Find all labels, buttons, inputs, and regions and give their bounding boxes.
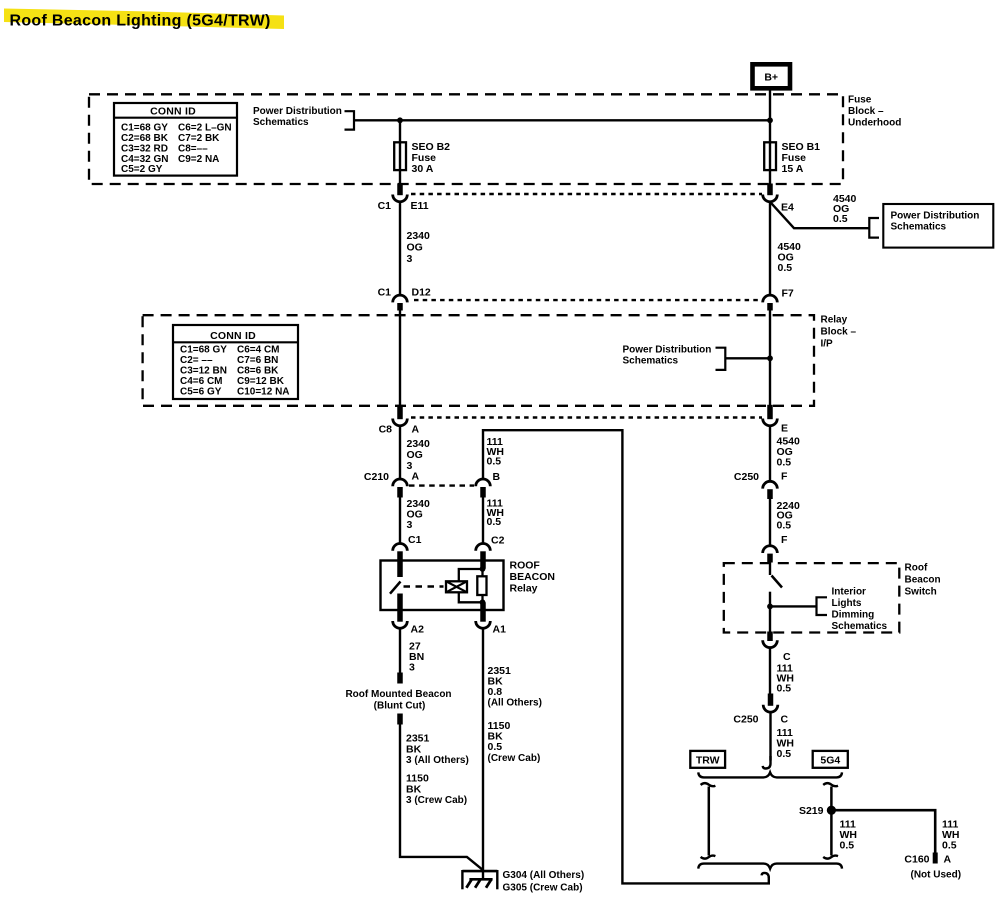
svg-text:0.5: 0.5 [840, 840, 855, 852]
svg-text:30 A: 30 A [412, 163, 434, 175]
wire: resistor branch [481, 569, 483, 602]
wire 4540 OG 0.5: E4 to F7 [769, 202, 771, 295]
svg-text:C4=32 GN: C4=32 GN [121, 154, 169, 165]
svg-text:CONN ID: CONN ID [210, 330, 256, 342]
wire 4540 OG 0.5: E to C250 F [769, 426, 771, 482]
svg-text:F: F [781, 471, 788, 483]
relay resistor [477, 576, 486, 595]
connector C160 pin A (not used) [933, 853, 938, 864]
relay switch blade [390, 582, 401, 594]
connector link line C210 A-B [409, 484, 474, 486]
svg-text:BK: BK [406, 783, 422, 795]
svg-text:BEACON: BEACON [510, 571, 556, 583]
svg-text:BK: BK [406, 743, 422, 755]
node: junction in relay block [767, 355, 773, 361]
power distribution schematics reference box (right) [883, 204, 993, 248]
wire S219 to C160 [831, 810, 935, 852]
relay actuator dashed link [404, 585, 444, 587]
svg-text:A: A [412, 471, 420, 483]
svg-text:D12: D12 [412, 287, 431, 299]
wire: SEO B1 to connector E4 [769, 170, 771, 184]
svg-text:3 (All Others): 3 (All Others) [406, 755, 469, 766]
wire to relay block bus [725, 357, 770, 359]
svg-text:(Crew Cab): (Crew Cab) [488, 753, 541, 764]
connector link line C8A-E [411, 416, 762, 418]
wire: switch lower contact [769, 592, 771, 633]
bracket symbol [716, 348, 726, 370]
5G4 branch bracket [830, 787, 833, 856]
svg-text:(Blunt Cut): (Blunt Cut) [374, 700, 426, 711]
switch connector pin C [767, 632, 773, 642]
wire: B+ down to fuse SEO B1 [769, 88, 771, 142]
connector C210 pin A [393, 479, 408, 486]
roof beacon relay box [381, 561, 504, 611]
svg-text:0.5: 0.5 [487, 456, 502, 468]
wire 111 WH 0.5: splice network to relay coil B [483, 430, 769, 883]
svg-text:I/P: I/P [821, 339, 834, 350]
fuse SEO B1 15 A [769, 142, 771, 170]
wire 2340 OG 3: C8 A to C210 A [399, 426, 401, 480]
connector C1 pin D12 [393, 295, 408, 302]
svg-text:Power Distribution: Power Distribution [891, 211, 980, 222]
node: junction on SEO B2 branch [397, 117, 403, 123]
svg-text:C4=6 CM: C4=6 CM [180, 376, 223, 387]
svg-text:C2= ––: C2= –– [180, 355, 213, 366]
svg-text:Lights: Lights [832, 598, 862, 609]
svg-text:Roof: Roof [905, 563, 928, 574]
svg-text:0.5: 0.5 [942, 840, 957, 852]
wire: coil branch [459, 569, 483, 581]
svg-text:C8: C8 [379, 424, 393, 436]
svg-text:Beacon: Beacon [905, 575, 941, 586]
svg-text:C10=12 NA: C10=12 NA [237, 386, 290, 397]
svg-text:3 (Crew Cab): 3 (Crew Cab) [406, 795, 467, 806]
svg-text:A2: A2 [411, 623, 425, 635]
svg-text:3: 3 [409, 662, 415, 674]
svg-text:Interior: Interior [832, 587, 867, 598]
bracket symbol [869, 218, 879, 238]
svg-text:Fuse: Fuse [848, 95, 872, 106]
relay switch lower contact [397, 594, 403, 611]
splice S219 [827, 806, 836, 815]
svg-text:C250: C250 [733, 714, 758, 726]
wire: feed bus from schematic reference to B+ branch [354, 119, 770, 121]
battery feed B+ [753, 64, 791, 88]
relay pin A1 [480, 610, 486, 622]
wire 4540 OG branch to power distribution [770, 202, 869, 228]
svg-text:Schematics: Schematics [253, 117, 309, 128]
wire: SEO B2 to connector E11 [399, 170, 401, 184]
svg-text:TRW: TRW [696, 755, 720, 767]
svg-text:Relay: Relay [821, 315, 848, 326]
relay pin C1 [393, 544, 408, 551]
connector C8 pin A [397, 405, 403, 419]
svg-text:0.5: 0.5 [778, 262, 793, 274]
connector C210 pin B [476, 479, 491, 486]
svg-text:Roof Mounted Beacon: Roof Mounted Beacon [345, 689, 451, 700]
svg-text:E11: E11 [411, 200, 429, 212]
wire 111 WH 0.5 to option braces [769, 712, 771, 760]
connector C250 pin F [763, 481, 778, 488]
connector link line E11-E4 [411, 193, 762, 195]
svg-text:C1=68 GY: C1=68 GY [121, 122, 168, 133]
title highlight [4, 9, 284, 30]
svg-text:C5=6 GY: C5=6 GY [180, 386, 222, 397]
svg-text:15 A: 15 A [782, 163, 804, 175]
wire to interior lights dimming reference [770, 605, 816, 607]
wire 2340 OG 3: C210 to relay C1 [399, 498, 401, 544]
bracket symbol [817, 597, 828, 615]
wire 2340 OG 3: E11 to D12 [399, 202, 401, 295]
svg-text:Block –: Block – [821, 327, 857, 338]
svg-text:C8=6 BK: C8=6 BK [237, 366, 279, 377]
roof beacon switch (dashed box) [724, 563, 900, 632]
svg-text:C6=4 CM: C6=4 CM [237, 345, 280, 356]
svg-text:3: 3 [407, 253, 413, 265]
relay pin A2 [397, 610, 403, 622]
connector pin E [767, 405, 773, 419]
ground G304/G305 [462, 870, 497, 873]
svg-text:C2: C2 [491, 535, 505, 547]
svg-text:Relay: Relay [510, 583, 538, 595]
svg-text:C9=2 NA: C9=2 NA [178, 154, 219, 165]
svg-text:0.5: 0.5 [487, 516, 502, 528]
svg-text:C160: C160 [904, 854, 929, 866]
node: junction on SEO B1 branch [767, 117, 773, 123]
svg-text:G305 (Crew Cab): G305 (Crew Cab) [503, 882, 583, 893]
top option brace [698, 772, 842, 777]
wire: D12 through relay block [399, 311, 401, 406]
relay block - I/P (dashed box) [143, 315, 814, 406]
fuse SEO B2 30 A [399, 142, 401, 170]
wire: bus down to fuse SEO B2 [399, 120, 401, 142]
svg-text:A: A [412, 424, 420, 436]
svg-text:Switch: Switch [905, 587, 937, 598]
svg-text:C250: C250 [734, 471, 759, 483]
relay coil [446, 581, 467, 592]
svg-text:0.5: 0.5 [777, 457, 792, 469]
svg-text:0.5: 0.5 [777, 520, 792, 532]
fuse block - underhood (dashed box) [89, 94, 843, 184]
svg-text:C2=68 BK: C2=68 BK [121, 133, 169, 144]
wire 27 BN 3 from A2 [399, 628, 401, 673]
svg-text:0.5: 0.5 [833, 213, 848, 225]
switch connector pin F [763, 546, 778, 553]
svg-text:Schematics: Schematics [832, 621, 888, 632]
svg-text:C6=2 L–GN: C6=2 L–GN [178, 122, 232, 133]
svg-text:C: C [781, 714, 789, 726]
connector C1 pin E11 [397, 184, 403, 196]
wire 2240 OG 0.5 [769, 499, 771, 546]
svg-text:C: C [783, 651, 791, 663]
svg-text:(All Others): (All Others) [488, 698, 542, 709]
svg-text:S219: S219 [799, 805, 824, 817]
blunt cut wire start [397, 714, 403, 725]
svg-text:C3=12 BN: C3=12 BN [180, 366, 227, 377]
svg-text:C9=12 BK: C9=12 BK [237, 376, 285, 387]
svg-text:C5=2 GY: C5=2 GY [121, 164, 163, 175]
svg-text:Roof Beacon Lighting (5G4/TRW): Roof Beacon Lighting (5G4/TRW) [10, 13, 271, 30]
blunt cut wire end [397, 673, 403, 684]
svg-text:B: B [493, 471, 501, 483]
connector C250 pin C [768, 694, 774, 706]
svg-text:Schematics: Schematics [891, 222, 947, 233]
bracket symbol [345, 111, 355, 129]
svg-text:0.5: 0.5 [488, 741, 503, 753]
connector table CONN ID (relay block) [173, 325, 298, 399]
TRW option box [690, 751, 725, 768]
svg-text:0.8: 0.8 [488, 686, 503, 698]
svg-text:A: A [944, 854, 952, 866]
wire 2351 BK / 1150 BK to ground [400, 724, 483, 870]
svg-text:C1: C1 [378, 200, 392, 212]
svg-text:C7=2 BK: C7=2 BK [178, 133, 220, 144]
svg-text:F: F [781, 534, 788, 546]
svg-text:E: E [781, 423, 788, 435]
svg-text:C1=68 GY: C1=68 GY [180, 345, 227, 356]
wire 111 WH 0.5: C210 B to relay C2 [482, 498, 484, 544]
svg-text:Schematics: Schematics [623, 356, 679, 367]
5G4 option box [813, 751, 848, 768]
svg-text:Power Distribution: Power Distribution [253, 106, 342, 117]
svg-text:C7=6 BN: C7=6 BN [237, 355, 278, 366]
node: coil top junction [480, 566, 486, 572]
svg-text:C1: C1 [408, 534, 422, 546]
TRW branch bracket [708, 787, 711, 856]
svg-text:C8=––: C8=–– [178, 143, 208, 154]
wire 111 WH 0.5: switch to C250 [769, 648, 771, 694]
connector pin F7 [763, 295, 778, 302]
svg-text:CONN ID: CONN ID [150, 106, 196, 118]
svg-text:Block –: Block – [848, 106, 884, 117]
node: coil bottom junction [480, 599, 486, 605]
svg-text:Power Distribution: Power Distribution [623, 345, 712, 356]
wire end curl [762, 873, 769, 878]
wire end curl [763, 756, 771, 769]
wire: F7 through relay block [769, 311, 771, 406]
svg-text:C1: C1 [378, 287, 392, 299]
svg-text:C210: C210 [364, 471, 389, 483]
svg-text:3: 3 [407, 519, 413, 531]
svg-text:2340: 2340 [407, 230, 431, 242]
connector link line D12-F7 [414, 299, 762, 301]
svg-text:ROOF: ROOF [510, 560, 541, 572]
connector table CONN ID (fuse block) [114, 103, 237, 176]
svg-text:Dimming: Dimming [832, 610, 875, 621]
svg-text:0.5: 0.5 [777, 683, 792, 695]
wire 2351 BK 0.8 from A1 to ground [482, 628, 484, 879]
node: junction to dimming reference [767, 604, 773, 610]
switch blade [772, 576, 783, 588]
svg-text:C3=32 RD: C3=32 RD [121, 143, 168, 154]
svg-text:0.5: 0.5 [777, 748, 792, 760]
wire: A1 pin inside relay [480, 602, 486, 610]
svg-text:E4: E4 [781, 202, 794, 214]
relay pin C2 [476, 544, 491, 551]
svg-text:B+: B+ [764, 72, 778, 84]
connector pin E4 [767, 184, 773, 196]
svg-text:OG: OG [407, 242, 423, 254]
svg-text:G304 (All Others): G304 (All Others) [503, 870, 585, 881]
svg-text:F7: F7 [782, 288, 794, 300]
svg-text:Underhood: Underhood [848, 118, 901, 129]
svg-text:A1: A1 [493, 623, 507, 635]
svg-text:(Not Used): (Not Used) [911, 870, 962, 881]
bottom option brace [698, 864, 842, 869]
svg-text:5G4: 5G4 [820, 755, 840, 767]
